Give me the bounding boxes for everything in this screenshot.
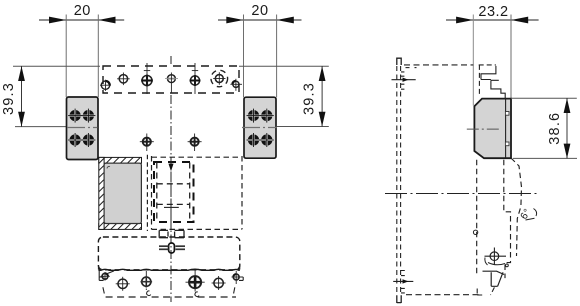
- svg-text:39.3: 39.3: [302, 82, 318, 115]
- svg-text:38.6: 38.6: [547, 112, 563, 145]
- svg-text:20: 20: [251, 3, 268, 19]
- svg-text:23.2: 23.2: [478, 4, 508, 20]
- svg-text:20: 20: [74, 3, 91, 19]
- svg-text:39.3: 39.3: [1, 82, 17, 115]
